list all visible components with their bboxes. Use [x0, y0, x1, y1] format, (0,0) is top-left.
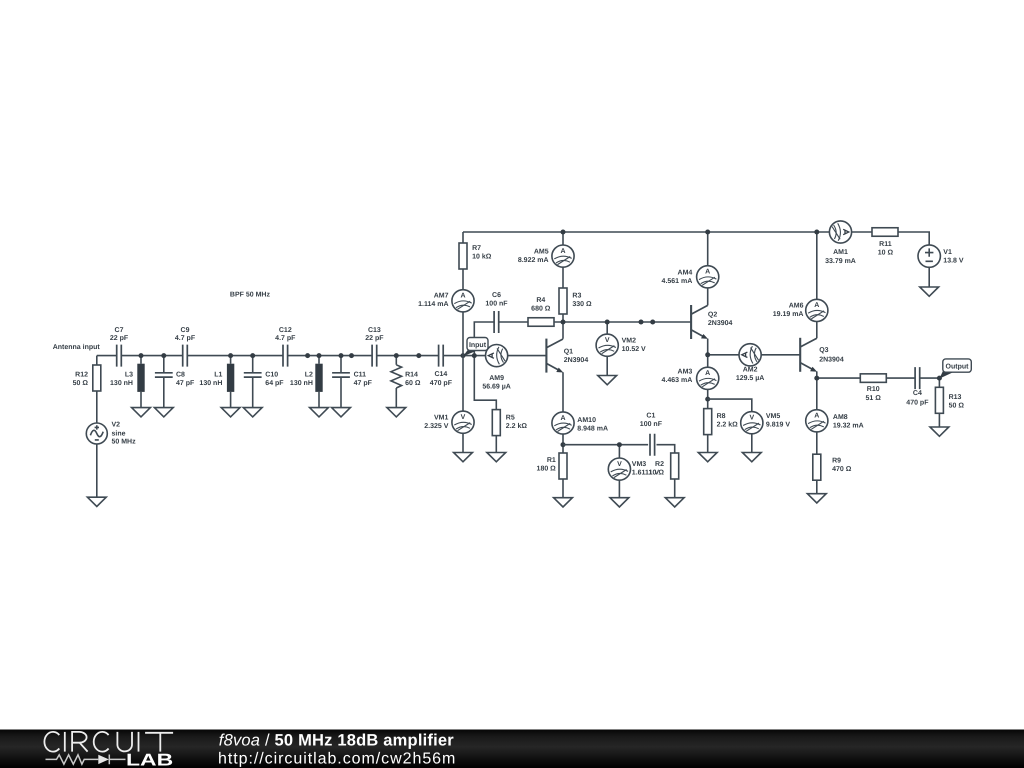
capacitor C6 — [485, 292, 508, 333]
svg-text:470 Ω: 470 Ω — [832, 466, 852, 473]
svg-text:AM4: AM4 — [678, 269, 693, 276]
svg-text:sine: sine — [112, 429, 126, 437]
node dot VM2 — [605, 320, 610, 325]
transistor Q1 — [546, 339, 588, 373]
svg-text:C9: C9 — [181, 327, 190, 334]
svg-text:R14: R14 — [405, 371, 418, 378]
svg-text:V: V — [617, 461, 622, 468]
wire C6/R5 branch — [474, 322, 496, 453]
svg-text:R3: R3 — [572, 292, 581, 299]
ground (R14) — [387, 408, 406, 417]
ammeter AM10 — [552, 412, 608, 434]
svg-text:10 Ω: 10 Ω — [649, 470, 665, 477]
ground (C10) — [243, 408, 262, 417]
svg-text:C4: C4 — [913, 390, 922, 397]
node dot output — [937, 376, 942, 381]
svg-text:V: V — [749, 415, 754, 422]
inductor L1 — [199, 356, 234, 408]
resistor R3 — [559, 288, 592, 339]
svg-text:4.7 pF: 4.7 pF — [275, 335, 296, 342]
svg-text:51 Ω: 51 Ω — [866, 395, 882, 402]
svg-text:Q2: Q2 — [708, 312, 717, 319]
capacitor C1 — [640, 413, 663, 456]
svg-text:Antenna input: Antenna input — [53, 343, 101, 351]
svg-text:AM7: AM7 — [434, 293, 449, 300]
resistor R14 — [391, 356, 421, 408]
svg-text:f8voa / 50 MHz 18dB amplifier: f8voa / 50 MHz 18dB amplifier — [219, 731, 454, 749]
svg-text:AM3: AM3 — [678, 368, 693, 375]
inductor L3 — [110, 356, 145, 408]
capacitor C13 — [365, 327, 384, 366]
svg-text:R8: R8 — [717, 413, 726, 420]
svg-text:129.5 µA: 129.5 µA — [736, 375, 765, 382]
wire emitter horizontal — [563, 445, 675, 498]
svg-text:A: A — [814, 413, 819, 420]
svg-text:2.2 kΩ: 2.2 kΩ — [717, 421, 739, 429]
svg-text:C6: C6 — [492, 292, 501, 299]
svg-text:C8: C8 — [176, 371, 185, 378]
ground (C11) — [332, 408, 351, 417]
svg-text:R7: R7 — [472, 245, 481, 252]
svg-text:R1: R1 — [547, 457, 556, 464]
ammeter AM1 — [825, 221, 856, 265]
resistor R8 — [704, 409, 738, 435]
node dot Q3 emitter — [814, 376, 819, 381]
resistor R7 — [459, 243, 492, 269]
ground (VM1) — [454, 453, 473, 462]
flag Input — [463, 338, 488, 357]
ammeter AM6 — [773, 299, 828, 321]
svg-text:V1: V1 — [943, 249, 952, 256]
resistor R2 — [649, 453, 679, 479]
node dot Q2 emitter — [705, 352, 710, 357]
node dot L3 — [139, 353, 144, 358]
capacitor C12 — [275, 327, 296, 366]
capacitor C9 — [175, 327, 196, 366]
voltmeter VM3 — [608, 445, 659, 498]
node dot L2 — [317, 353, 322, 358]
ground (VM3) — [610, 498, 629, 507]
svg-text:470 pF: 470 pF — [906, 400, 929, 407]
svg-text:A: A — [560, 415, 565, 422]
ammeter AM5 — [518, 232, 574, 288]
capacitor C11 — [332, 356, 373, 408]
logo resistor-diode squiggle — [46, 755, 126, 765]
svg-text:AM6: AM6 — [789, 303, 804, 310]
node dot C8 — [161, 353, 166, 358]
svg-text:V: V — [605, 337, 610, 344]
svg-text:C12: C12 — [279, 327, 292, 334]
svg-text:BPF 50 MHz: BPF 50 MHz — [230, 291, 271, 298]
capacitor C8 — [155, 356, 195, 408]
node dot AM6 rail — [814, 230, 819, 235]
node dot C10 — [250, 353, 255, 358]
wire main input line segments — [97, 355, 547, 357]
svg-text:R10: R10 — [867, 386, 880, 393]
capacitor C7 — [110, 327, 129, 366]
capacitor C10 — [244, 356, 285, 408]
ground (R8) — [698, 453, 717, 462]
voltmeter VM1 — [424, 356, 474, 453]
svg-text:2N3904: 2N3904 — [564, 357, 589, 364]
ground (VM5) — [742, 453, 761, 462]
svg-text:33.79 mA: 33.79 mA — [825, 258, 856, 265]
svg-text:19.19 mA: 19.19 mA — [773, 311, 804, 318]
svg-text:1.114 mA: 1.114 mA — [418, 301, 448, 308]
wire AM7 column — [462, 232, 464, 356]
node dot AM4 rail — [705, 230, 710, 235]
svg-text:V2: V2 — [112, 422, 121, 429]
svg-text:R2: R2 — [655, 461, 664, 468]
svg-text:R5: R5 — [506, 414, 515, 421]
svg-text:Output: Output — [946, 363, 970, 370]
svg-text:470 pF: 470 pF — [430, 380, 453, 387]
node Input junction dot — [461, 353, 466, 358]
resistor R11 — [872, 228, 898, 257]
svg-text:22 pF: 22 pF — [365, 335, 384, 342]
svg-text:100 nF: 100 nF — [640, 421, 663, 428]
node dot R14 — [394, 353, 399, 358]
svg-text:AM2: AM2 — [743, 367, 758, 374]
svg-text:L2: L2 — [305, 371, 313, 378]
svg-text:8.922 mA: 8.922 mA — [518, 257, 549, 264]
svg-text:A: A — [705, 269, 710, 276]
svg-text:180 Ω: 180 Ω — [537, 465, 557, 472]
node dot joint — [305, 353, 310, 358]
svg-text:L3: L3 — [125, 371, 133, 378]
ground (VM2) — [598, 376, 617, 385]
ammeter AM3 — [662, 367, 719, 389]
svg-text:19.32 mA: 19.32 mA — [833, 423, 864, 430]
ammeter AM9 — [482, 345, 511, 391]
wire VM5 branch — [708, 399, 752, 452]
wire Q1 emitter column — [562, 372, 564, 497]
svg-text:Input: Input — [469, 342, 487, 349]
wire R4/C6 line to node — [499, 321, 691, 323]
svg-text:LAB: LAB — [126, 750, 173, 768]
svg-text:4.561 mA: 4.561 mA — [662, 278, 693, 285]
svg-text:4.7 pF: 4.7 pF — [175, 335, 196, 342]
svg-text:C11: C11 — [354, 371, 367, 378]
wire rail top — [463, 232, 929, 245]
svg-text:VM5: VM5 — [766, 413, 781, 420]
svg-text:AM8: AM8 — [833, 414, 848, 421]
node dot L1 — [228, 353, 233, 358]
svg-text:50 MHz: 50 MHz — [112, 439, 137, 446]
svg-text:A: A — [460, 293, 465, 300]
transistor Q3 — [800, 338, 844, 372]
svg-text:AM9: AM9 — [489, 375, 504, 382]
svg-text:A: A — [560, 248, 565, 255]
resistor R13 — [935, 387, 964, 413]
svg-text:VM3: VM3 — [632, 461, 647, 468]
resistor R4 — [528, 297, 554, 326]
svg-text:4.463 mA: 4.463 mA — [662, 377, 693, 384]
capacitor C14 — [430, 345, 453, 387]
svg-text:13.8 V: 13.8 V — [943, 258, 964, 265]
svg-text:60 Ω: 60 Ω — [405, 380, 421, 387]
inductor L2 — [290, 356, 323, 408]
node dot C11 — [339, 353, 344, 358]
resistor R5 — [492, 410, 527, 436]
svg-text:L1: L1 — [214, 371, 222, 378]
svg-text:10 Ω: 10 Ω — [878, 250, 894, 257]
ammeter AM4 — [662, 266, 719, 288]
node dot AM5 rail — [561, 230, 566, 235]
logo CIRCUIT wordmark — [44, 732, 173, 752]
svg-text:Q3: Q3 — [819, 347, 828, 354]
svg-text:A: A — [814, 302, 819, 309]
ground (L2) — [310, 408, 329, 417]
wire Q3 emitter — [817, 371, 940, 493]
svg-text:2N3904: 2N3904 — [708, 320, 733, 327]
source V1 — [918, 245, 964, 287]
svg-text:VM2: VM2 — [622, 338, 637, 345]
resistor R1 — [537, 453, 567, 479]
resistor R12 — [73, 356, 101, 423]
node dot AM3 bottom — [705, 397, 710, 402]
svg-text:V: V — [461, 414, 466, 421]
node dot VM3 — [617, 442, 622, 447]
flag Output — [939, 359, 971, 379]
node dot R3 — [561, 320, 566, 325]
svg-text:A: A — [705, 370, 710, 377]
voltmeter VM2 — [596, 322, 646, 376]
ground (C8) — [154, 408, 173, 417]
svg-text:C1: C1 — [646, 413, 655, 420]
svg-text:47 pF: 47 pF — [354, 380, 373, 387]
ground (R5) — [487, 453, 506, 462]
svg-text:56.69 µA: 56.69 µA — [482, 384, 511, 391]
svg-text:2.325 V: 2.325 V — [424, 423, 448, 430]
svg-text:AM10: AM10 — [577, 417, 596, 424]
svg-text:C10: C10 — [265, 371, 278, 378]
svg-text:2.2 kΩ: 2.2 kΩ — [506, 422, 528, 430]
svg-text:C14: C14 — [434, 371, 447, 378]
svg-text:130 nH: 130 nH — [290, 380, 313, 387]
node dot C6 branch — [472, 353, 477, 358]
ammeter AM2 — [736, 344, 765, 383]
ammeter AM7 — [452, 290, 474, 312]
node dot joint — [349, 353, 354, 358]
wire Q2 collector — [707, 232, 709, 305]
svg-text:C7: C7 — [115, 327, 124, 334]
resistor R9 — [813, 454, 852, 480]
ground (L3) — [132, 408, 151, 417]
ground (R13) — [930, 427, 949, 436]
svg-text:8.948 mA: 8.948 mA — [577, 425, 608, 432]
node dot joint — [416, 353, 421, 358]
voltmeter VM5 — [741, 412, 791, 434]
ground (R2) — [665, 498, 684, 507]
node dot joint — [639, 320, 644, 325]
wire Q3 collector — [816, 232, 818, 338]
svg-text:330 Ω: 330 Ω — [572, 301, 592, 308]
svg-text:R11: R11 — [879, 241, 892, 248]
svg-text:47 pF: 47 pF — [176, 380, 195, 387]
transistor Q2 — [691, 305, 732, 339]
svg-text:130 nH: 130 nH — [199, 380, 222, 387]
capacitor C4 — [906, 367, 929, 407]
ammeter AM8 — [806, 410, 864, 432]
wire Q2 emitter — [708, 339, 801, 453]
svg-text:10 kΩ: 10 kΩ — [472, 253, 492, 261]
svg-text:22 pF: 22 pF — [110, 335, 129, 342]
source V2 sine — [86, 422, 136, 498]
ground (R9) — [807, 494, 826, 503]
svg-text:100 nF: 100 nF — [485, 300, 508, 307]
svg-text:64 pF: 64 pF — [265, 380, 284, 387]
svg-text:R4: R4 — [536, 297, 545, 304]
svg-text:VM1: VM1 — [434, 414, 449, 421]
svg-text:50 Ω: 50 Ω — [73, 380, 89, 387]
svg-text:http://circuitlab.com/cw2h56m: http://circuitlab.com/cw2h56m — [218, 750, 456, 767]
svg-text:10.52 V: 10.52 V — [622, 346, 646, 353]
svg-text:C13: C13 — [368, 327, 381, 334]
ground (V2) — [87, 497, 106, 506]
svg-text:AM1: AM1 — [833, 249, 848, 256]
svg-text:R13: R13 — [949, 394, 962, 401]
svg-text:680 Ω: 680 Ω — [531, 305, 551, 312]
svg-text:130 nH: 130 nH — [110, 380, 133, 387]
logo diode triangle — [98, 755, 109, 764]
ground (R1) — [554, 498, 573, 507]
ground (L1) — [221, 408, 240, 417]
svg-text:2N3904: 2N3904 — [819, 357, 844, 364]
resistor R10 — [860, 374, 886, 402]
svg-text:R9: R9 — [832, 458, 841, 465]
svg-text:R12: R12 — [75, 371, 88, 378]
svg-text:50 Ω: 50 Ω — [949, 403, 965, 410]
node dot joint — [650, 320, 655, 325]
svg-text:Q1: Q1 — [564, 349, 573, 356]
svg-text:AM5: AM5 — [534, 249, 549, 256]
ground (V1) — [920, 287, 939, 296]
svg-text:9.819 V: 9.819 V — [766, 422, 790, 429]
node dot emitter — [561, 442, 566, 447]
